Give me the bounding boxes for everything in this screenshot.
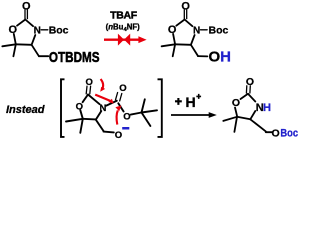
bond C2-O1 bbox=[241, 94, 249, 99]
bond CH2-OBoc bbox=[266, 131, 272, 133]
svg-text:N: N bbox=[193, 26, 200, 37]
final product S4 (bottom right): ring bonds bbox=[223, 86, 272, 132]
bond C4-CH2 bbox=[191, 45, 198, 56]
bond C2-O1 bbox=[176, 20, 184, 26]
bond Oester-CtBu bbox=[131, 113, 142, 115]
bond N3-C4 bbox=[250, 111, 255, 119]
svg-text:O: O bbox=[22, 0, 31, 12]
alkoxide minus charge (blue) bbox=[122, 127, 129, 130]
Cboc=O double bond bbox=[116, 93, 118, 100]
svg-text:O: O bbox=[9, 24, 18, 36]
tBu methyl right bbox=[142, 110, 158, 112]
bond C2-O1 bbox=[17, 20, 25, 26]
ring C2=O double bond bbox=[85, 86, 88, 94]
svg-text:+: + bbox=[175, 95, 182, 109]
reactant S1: oxazolidinone ring bonds bbox=[2, 10, 48, 57]
svg-text:(nBu4NF): (nBu4NF) bbox=[106, 23, 140, 33]
bond N-Boc bbox=[41, 29, 48, 31]
methyl on C5 (down) bbox=[13, 44, 15, 56]
bond C2-N3 bbox=[25, 20, 33, 27]
svg-text:O: O bbox=[181, 0, 190, 12]
bond O1-C5 bbox=[235, 108, 237, 116]
svg-text:O: O bbox=[246, 76, 254, 88]
svg-text:H: H bbox=[186, 94, 196, 110]
C2=O double bond bbox=[245, 86, 247, 93]
methyl on C5 (left) bbox=[66, 119, 83, 122]
svg-text:O: O bbox=[115, 130, 122, 141]
methyl on C5 (left) bbox=[223, 117, 237, 121]
bond Cboc-Oester bbox=[118, 103, 123, 111]
svg-text:Boc: Boc bbox=[280, 128, 298, 140]
bond O1-C5 bbox=[14, 34, 16, 44]
intermediate S3 atom labels bbox=[76, 77, 131, 141]
svg-text:O: O bbox=[272, 127, 280, 139]
bond C5-C4 bbox=[237, 117, 250, 120]
red X cross (bowtie) bbox=[118, 34, 124, 46]
bond C2-N3 bbox=[88, 95, 100, 105]
bond C5-C4 bbox=[16, 43, 32, 46]
bond CH2-O(-) bbox=[104, 131, 114, 134]
bond N3-Cboc bbox=[106, 101, 117, 106]
bond O1-C5 bbox=[173, 34, 175, 44]
C2=O double bond bbox=[24, 10, 26, 19]
bond C4-CH2 bbox=[32, 45, 39, 56]
bond N3-C4 bbox=[32, 35, 36, 45]
bond N3-C4 bbox=[191, 35, 195, 45]
red curved arrow B (C-N bond) bbox=[95, 95, 114, 104]
C2=O double bond bbox=[183, 10, 185, 19]
svg-text:+: + bbox=[196, 92, 201, 101]
svg-text:Boc: Boc bbox=[209, 25, 229, 37]
bond CH2-OH bbox=[198, 55, 208, 57]
bond C2-N3 bbox=[248, 94, 255, 102]
bond C2-N3 bbox=[185, 20, 193, 27]
svg-text:O: O bbox=[119, 83, 126, 94]
bond C5-C4 bbox=[83, 118, 96, 121]
svg-text:OH: OH bbox=[209, 49, 232, 66]
svg-text:O: O bbox=[168, 24, 177, 36]
methyl on C5 (left) bbox=[162, 44, 176, 46]
svg-text:O: O bbox=[86, 77, 93, 88]
svg-text:O: O bbox=[232, 97, 240, 109]
methyl on C5 (down) bbox=[234, 117, 237, 132]
red curved arrow C (alkoxide attack) bbox=[115, 105, 121, 124]
methyl on C5 (down) bbox=[173, 44, 175, 56]
product S2 (top right): ring bonds bbox=[162, 10, 208, 57]
methyl on C5 (left) bbox=[2, 44, 16, 46]
left bracket bbox=[61, 79, 65, 137]
bond C2-O1 bbox=[83, 95, 88, 103]
svg-text:OTBDMS: OTBDMS bbox=[49, 49, 100, 66]
svg-text:O: O bbox=[76, 101, 83, 112]
black forward arrow (+H+) bbox=[171, 112, 217, 118]
bond C5-C4 bbox=[175, 43, 191, 46]
red no-reaction arrow bbox=[104, 34, 147, 46]
svg-text:N: N bbox=[99, 103, 106, 114]
tBu methyl down bbox=[142, 113, 151, 127]
methyl on C5 (down) bbox=[80, 119, 83, 133]
intermediate S3 (bottom middle): ring bonds bbox=[66, 86, 157, 133]
bond N-Boc bbox=[201, 29, 208, 31]
svg-text:O: O bbox=[123, 112, 130, 123]
right bracket bbox=[158, 79, 162, 137]
svg-text:Instead: Instead bbox=[6, 104, 45, 116]
bond C4-CH2 bbox=[96, 119, 104, 131]
product S4 atom labels bbox=[232, 76, 280, 139]
red curved arrow A (ring C=O) bbox=[100, 79, 105, 92]
svg-text:H: H bbox=[263, 102, 271, 114]
tBu methyl up bbox=[142, 99, 145, 112]
svg-text:N: N bbox=[34, 26, 41, 37]
bond N3-C4 bbox=[96, 111, 101, 119]
svg-text:TBAF: TBAF bbox=[110, 10, 138, 22]
bond O1-C5 bbox=[80, 110, 83, 119]
bond C4-CH2 bbox=[250, 119, 265, 131]
svg-text:Boc: Boc bbox=[49, 24, 69, 36]
bond CH2-OTBDMS bbox=[39, 55, 48, 57]
